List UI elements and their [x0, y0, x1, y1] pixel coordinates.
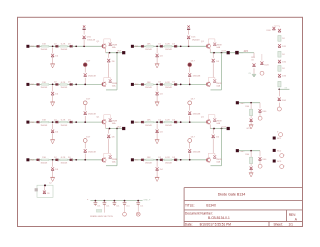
- input pad row 3B: [131, 121, 134, 124]
- wire emitter Q2At: [105, 125, 107, 129]
- input pad row 4B: [131, 158, 134, 161]
- V+ power arrow A: [83, 26, 85, 28]
- diode D2B2: [160, 83, 163, 86]
- wire tall chain stem 2: [278, 103, 280, 107]
- wire tall chain right: [279, 88, 289, 90]
- diode level 1B: [212, 59, 215, 62]
- svg-text:1N4148: 1N4148: [145, 49, 152, 51]
- diode RC C40 b: [259, 109, 262, 112]
- wire RC C41 low b: [259, 161, 261, 164]
- svg-text:1N4148: 1N4148: [61, 163, 68, 165]
- junction gap 3A: [84, 159, 86, 161]
- svg-text:1N4148: 1N4148: [61, 125, 68, 127]
- svg-text:1N4148: 1N4148: [193, 114, 201, 116]
- svg-text:15K: 15K: [42, 82, 46, 84]
- junction row 4B node 2: [180, 159, 182, 161]
- diode right subblock: [253, 64, 256, 67]
- wire collector bridge Q1Bb: [208, 78, 215, 82]
- svg-text:6.2K: 6.2K: [165, 44, 170, 46]
- svg-text:1N4148: 1N4148: [41, 49, 48, 51]
- junction gap 2B: [189, 121, 191, 123]
- svg-text:1N4148: 1N4148: [193, 76, 201, 78]
- svg-text:OUT: OUT: [117, 51, 122, 53]
- transistor Q1Ab: [102, 82, 106, 87]
- junction bottom bus 1: [95, 200, 97, 202]
- diode D3B2: [160, 121, 163, 124]
- wire right subblock stem: [253, 68, 255, 74]
- wire RC C41 drop b: [259, 151, 261, 157]
- diode D4A1: [36, 159, 39, 162]
- diode right subblock 2: [260, 62, 263, 65]
- resistor R1B2: [164, 45, 171, 47]
- V+ power bar B: [187, 29, 190, 30]
- junction row 2A node 2: [75, 84, 77, 86]
- wire RC C41 mid: [250, 164, 252, 166]
- junction V+ branch A: [83, 45, 85, 47]
- junction bottom bus 4: [124, 200, 126, 202]
- junction row 4A node 1: [52, 159, 54, 161]
- wire level diode lower 1A: [108, 63, 110, 77]
- diode D3B3: [174, 121, 177, 124]
- svg-text:15K: 15K: [147, 82, 151, 84]
- resistor R4A2: [60, 159, 67, 161]
- power flag circle P2: [280, 154, 284, 158]
- diode gap 3A: [84, 149, 87, 152]
- wire collector bridge Q1Bt: [208, 39, 215, 44]
- wire RC C40 low b: [259, 113, 261, 116]
- wire top bridge: [274, 26, 280, 27]
- wire output tail 1B: [239, 52, 244, 54]
- svg-text:Date:: Date:: [185, 222, 193, 226]
- transistor Q1At: [102, 44, 106, 49]
- diode D4B2: [160, 159, 163, 162]
- diode D1B2: [160, 45, 163, 48]
- junction output 1B b: [221, 52, 223, 54]
- diode D2A1: [36, 83, 39, 86]
- resistor R2A2: [60, 84, 67, 86]
- svg-text:1N4148: 1N4148: [165, 87, 172, 89]
- wire right subblock 2 stem: [261, 54, 263, 61]
- junction row 3A node 1: [52, 121, 54, 123]
- diode clamp Q2Bt: [213, 118, 216, 121]
- V+ power bar A: [83, 29, 86, 30]
- resistor chain R32: [278, 51, 281, 57]
- diode D1A2: [55, 45, 58, 48]
- ground row 2B: [155, 102, 160, 106]
- transistor Q2Bb: [206, 158, 210, 163]
- ground row 1B: [155, 64, 160, 68]
- resistor chain R33: [278, 66, 281, 72]
- svg-text:SPARE GATE SECTION: SPARE GATE SECTION: [90, 215, 113, 218]
- resistor R3B2: [164, 121, 171, 123]
- svg-text:15K: 15K: [42, 120, 46, 122]
- junction row 1B node 2: [180, 45, 182, 47]
- wire gap stem 3A: [84, 143, 86, 149]
- capacitor C3: [113, 201, 117, 206]
- input pad row 3A: [26, 121, 29, 124]
- junction output 1A b: [116, 52, 118, 54]
- junction output 1B a: [213, 52, 215, 54]
- junction output 2A b: [116, 128, 118, 130]
- ground row 2A: [50, 102, 55, 106]
- wire gap stem 3B: [189, 143, 191, 149]
- wire RC C40 drop a: [250, 103, 252, 109]
- diode D3A1: [36, 121, 39, 124]
- power flag circle tall chain: [277, 107, 281, 111]
- wire output bus 1B: [211, 53, 222, 90]
- wire output row 2A: [106, 128, 122, 130]
- junction row 3B node 1: [156, 121, 158, 123]
- connector pad P1: [273, 137, 276, 140]
- junction V+ branch B: [188, 45, 190, 47]
- svg-text:1N4148: 1N4148: [145, 163, 152, 165]
- diode top bridge left: [272, 27, 275, 30]
- wire gap stem lower 1B: [189, 78, 191, 85]
- power ground bars right subblock: [252, 74, 256, 76]
- power flag circle RC C41: [258, 164, 262, 168]
- wire V+ stem upper B: [188, 30, 190, 34]
- diode clamp Q1Bb: [213, 79, 216, 82]
- wire stem row 2B to ground: [156, 96, 158, 102]
- wire tall chain stem: [278, 90, 280, 96]
- resistor R1A1: [41, 45, 48, 47]
- ground RC C41: [249, 173, 254, 177]
- power flag circle gap 3B: [188, 139, 192, 143]
- power flag circle bottom 1: [123, 212, 127, 216]
- svg-text:1N4148: 1N4148: [192, 39, 200, 41]
- capacitor C5: [136, 201, 140, 206]
- diode chain D33: [278, 74, 281, 77]
- svg-text:15K: 15K: [147, 44, 151, 46]
- junction row 4A node 2: [75, 159, 77, 161]
- junction gap 3B: [189, 159, 191, 161]
- junction bottom bus 3: [114, 200, 116, 202]
- wire input chain row 4B: [134, 159, 207, 161]
- spare box outline: [37, 185, 53, 197]
- wire input chain row 1B: [134, 45, 207, 47]
- wire stem row 2B clamp: [156, 86, 158, 92]
- power flag circle RC C40: [258, 116, 262, 120]
- input pad row 2B: [131, 83, 134, 86]
- junction tall chain: [278, 88, 280, 90]
- diode spare box: [43, 191, 46, 194]
- svg-text:OUT: OUT: [221, 126, 226, 128]
- resistor R4B1: [146, 159, 153, 161]
- capacitor C2: [103, 201, 107, 206]
- svg-text:1N4148: 1N4148: [193, 151, 201, 153]
- wire input chain row 1A: [29, 45, 102, 47]
- ground row 1A: [50, 64, 55, 68]
- wire input chain row 3B: [134, 121, 207, 123]
- svg-text:15K: 15K: [42, 157, 46, 159]
- wire gap stem 1B: [189, 67, 191, 73]
- diode D1B3: [174, 45, 177, 48]
- wire stem row 2A clamp: [52, 86, 54, 92]
- wire bottom circle stem 1: [124, 206, 126, 213]
- wire bottom res stem: [103, 206, 105, 213]
- wire collector bridge Q1Ab: [104, 78, 111, 82]
- ground row 3A: [50, 140, 55, 144]
- diode gap 1B: [188, 73, 191, 76]
- wire right subblock: [243, 53, 254, 58]
- wire stem row 3B clamp: [156, 123, 158, 129]
- resistor R1B1: [146, 45, 153, 47]
- wire emitter Q1Bt: [209, 49, 211, 53]
- diode D4A2: [55, 159, 58, 162]
- diode D1A1: [36, 45, 39, 48]
- diode D2B3: [174, 83, 177, 86]
- diode clamp Q2Bb: [213, 155, 216, 158]
- svg-text:15K: 15K: [147, 120, 151, 122]
- input pad row 4A: [26, 158, 29, 161]
- svg-text:1N4148: 1N4148: [41, 163, 48, 165]
- wire RC C40 mid: [250, 116, 252, 118]
- wire V+ stem upper A: [83, 30, 85, 34]
- diode chain D31: [278, 44, 281, 47]
- svg-text:6.2K: 6.2K: [165, 157, 170, 159]
- wire output extension 1B: [230, 52, 244, 54]
- wire spare box stem: [44, 186, 46, 191]
- svg-text:REV:: REV:: [289, 213, 296, 217]
- junction gap 2A: [84, 121, 86, 123]
- V+ power arrow B: [187, 26, 189, 28]
- resistor R2A1: [41, 84, 48, 86]
- diode D15B (pull-up): [187, 36, 190, 39]
- svg-text:1N4148: 1N4148: [61, 49, 68, 51]
- pad RC block C41: [236, 149, 239, 152]
- wire RC block C40: [239, 102, 260, 104]
- resistor R3A1: [41, 121, 48, 123]
- wire RC C40 drop b: [259, 103, 261, 109]
- diode chain D32: [278, 60, 281, 63]
- junction row 1A node 2: [75, 45, 77, 47]
- wire stem row 1A to ground: [52, 58, 54, 64]
- capacitor C1: [94, 201, 98, 206]
- diode clamp Q1Ab: [109, 79, 112, 82]
- wire level diode lower 2B: [212, 139, 214, 153]
- wire gap stem 1A: [84, 67, 86, 73]
- junction row 4B node 1: [156, 159, 158, 161]
- wire level diode lower 1B: [212, 63, 214, 77]
- junction RC C41 a: [250, 150, 252, 152]
- diode D3A2: [55, 121, 58, 124]
- transistor Q2Bt: [206, 120, 210, 125]
- svg-text:OUT: OUT: [117, 126, 122, 128]
- power flag circle gap 1A: [83, 63, 87, 67]
- junction bottom bus 5: [137, 200, 139, 202]
- resistor R4B2: [164, 159, 171, 161]
- junction output 2A a: [109, 128, 111, 130]
- svg-text:6.2K: 6.2K: [61, 82, 66, 84]
- wire stem row 4A clamp: [52, 161, 54, 167]
- input pad row 1B: [131, 45, 134, 48]
- diode gap 2B: [188, 112, 191, 115]
- svg-text:Document Number:: Document Number:: [185, 211, 213, 215]
- wire emitter Q2Bt: [209, 125, 211, 129]
- diode D1B1: [141, 45, 144, 48]
- svg-text:6.2K: 6.2K: [165, 82, 170, 84]
- resistor R3B1: [146, 121, 153, 123]
- svg-text:TITLE:: TITLE:: [185, 204, 195, 208]
- diode D1A3: [70, 45, 73, 48]
- wire stem row 1B clamp: [156, 48, 158, 54]
- border frame: [18, 17, 303, 226]
- diode D2A3: [70, 83, 73, 86]
- svg-text:B134X: B134X: [206, 204, 216, 208]
- pad RC block C40: [236, 101, 239, 104]
- junction row 2B node 2: [180, 84, 182, 86]
- capacitor C4: [123, 201, 127, 206]
- label spare box left: [35, 188, 38, 191]
- wire collector bridge Q2Bt: [208, 115, 215, 120]
- wire stem row 3B to ground: [156, 133, 158, 139]
- svg-text:1/1: 1/1: [289, 222, 294, 226]
- diode top bridge right: [278, 29, 281, 32]
- output pad 1A: [122, 51, 125, 54]
- wire output row 1A: [106, 52, 122, 54]
- wire output row 2B: [210, 128, 226, 130]
- junction row 3B node 2: [180, 121, 182, 123]
- svg-text:1N4148: 1N4148: [41, 125, 48, 127]
- wire V+ stem B: [188, 40, 190, 46]
- diode level 2B: [212, 135, 215, 138]
- resistor chain R34: [278, 81, 281, 87]
- wire level diode stem 2B: [212, 129, 214, 134]
- transistor Q2At: [102, 120, 106, 125]
- diode D2A4 (clamp): [51, 92, 54, 95]
- diode D3A4 (clamp): [51, 130, 54, 133]
- input pad row 2A: [26, 83, 29, 86]
- svg-text:NC2: NC2: [277, 150, 282, 152]
- svg-text:NC3: NC3: [277, 161, 282, 163]
- junction output 2B a: [213, 128, 215, 130]
- svg-text:6.2K: 6.2K: [61, 44, 66, 46]
- title block outline: [184, 188, 302, 227]
- junction row 2B node 1: [156, 84, 158, 86]
- junction row 3A node 2: [75, 121, 77, 123]
- svg-text:D9: D9: [47, 193, 49, 195]
- diode D2A2: [55, 83, 58, 86]
- diode gap 1A: [84, 73, 87, 76]
- svg-text:Diode Gate B134: Diode Gate B134: [218, 192, 246, 196]
- diode D2B1: [141, 83, 144, 86]
- transistor Q2Ab: [102, 158, 106, 163]
- wire stem row 1B to ground: [156, 58, 158, 64]
- wire output row 1B: [210, 52, 226, 54]
- wire gap stem 2B: [189, 105, 191, 111]
- output pad 2B: [227, 127, 230, 130]
- wire level diode lower 2A: [108, 139, 110, 153]
- wire collector bridge Q2Bb: [208, 153, 215, 157]
- diode D15A (pull-up): [83, 36, 86, 39]
- ground row 4A: [50, 177, 55, 181]
- svg-text:B-CB-B134-0-1: B-CB-B134-0-1: [208, 216, 230, 220]
- power flag circle gap 2B: [188, 101, 192, 105]
- wire RC block C41: [239, 150, 260, 152]
- diode D4B1: [141, 159, 144, 162]
- diode D3A3: [70, 121, 73, 124]
- svg-text:NC1: NC1: [277, 138, 282, 140]
- resistor R4A1: [41, 159, 48, 161]
- wire stem row 3A clamp: [52, 123, 54, 129]
- output pad 1B: [227, 51, 230, 54]
- svg-text:1N4148: 1N4148: [165, 163, 172, 165]
- diode clamp Q2At: [109, 118, 112, 121]
- resistor bottom: [96, 209, 101, 212]
- diode D4A3: [70, 159, 73, 162]
- wire V+ stem A: [83, 40, 85, 46]
- svg-text:1N4148: 1N4148: [88, 76, 96, 78]
- junction RC C40 a: [250, 102, 252, 104]
- diode D1A4 (clamp): [51, 54, 54, 57]
- diode D4B4 (clamp): [156, 167, 159, 170]
- junction output 2B b: [221, 128, 223, 130]
- transistor Q1Bt: [206, 44, 210, 49]
- svg-text:1N4148: 1N4148: [145, 87, 152, 89]
- power flag circle P1: [279, 133, 283, 137]
- svg-text:15K: 15K: [147, 157, 151, 159]
- wire level diode stem 2A: [108, 129, 110, 134]
- wire collector bridge Q1At: [104, 39, 111, 44]
- power flag circle gap 3A: [83, 139, 87, 143]
- wire collector bridge Q2Ab: [104, 153, 111, 157]
- wire input chain row 3A: [29, 121, 102, 123]
- diode clamp Q2Ab: [109, 155, 112, 158]
- diode RC C41: [250, 167, 253, 170]
- resistor R3A2: [60, 121, 67, 123]
- wire input chain row 2A: [29, 83, 102, 85]
- wire stem row 1A clamp: [52, 48, 54, 54]
- diode tall chain bottom: [278, 98, 281, 101]
- svg-text:Sheet:: Sheet:: [274, 222, 283, 226]
- wire output bus 2B: [211, 129, 222, 166]
- connector pad P3: [273, 160, 276, 163]
- diode level 1A: [107, 59, 110, 62]
- svg-text:6.2K: 6.2K: [61, 157, 66, 159]
- wire input chain row 2B: [134, 83, 207, 85]
- wire gap stem lower 1A: [84, 78, 86, 85]
- diode level 2A: [107, 135, 110, 138]
- diode D3B4 (clamp): [156, 130, 159, 133]
- wire input chain row 4A: [29, 159, 102, 161]
- wire RC C41 drop a: [250, 151, 252, 157]
- junction gap 1B: [189, 84, 191, 86]
- resistor RC C40: [250, 109, 253, 115]
- wire RC C40 low: [250, 122, 252, 124]
- resistor R2B1: [146, 84, 153, 86]
- svg-text:OUT: OUT: [221, 51, 226, 53]
- svg-text:1N4148: 1N4148: [41, 87, 48, 89]
- power flag circle P3: [280, 165, 284, 169]
- power flag circle right subblock 2: [260, 71, 264, 75]
- diode D1B4 (clamp): [156, 54, 159, 57]
- ground row 3B: [155, 140, 160, 144]
- ground row 4B: [155, 177, 160, 181]
- resistor RC C41: [250, 157, 253, 163]
- junction spare box: [44, 184, 46, 186]
- connector pad P2: [273, 149, 276, 152]
- diode D2B4 (clamp): [156, 92, 159, 95]
- diode D4B3: [174, 159, 177, 162]
- wire stem row 4A to ground: [52, 171, 54, 177]
- power flag circle bottom 2: [136, 212, 140, 216]
- ground RC C40: [249, 125, 254, 129]
- diode RC C41 b: [259, 157, 262, 160]
- wire level diode stem 1A: [108, 53, 110, 58]
- svg-text:6.2K: 6.2K: [165, 120, 170, 122]
- wire gap stem lower 3A: [84, 154, 86, 160]
- wire output bus 1A: [106, 53, 117, 90]
